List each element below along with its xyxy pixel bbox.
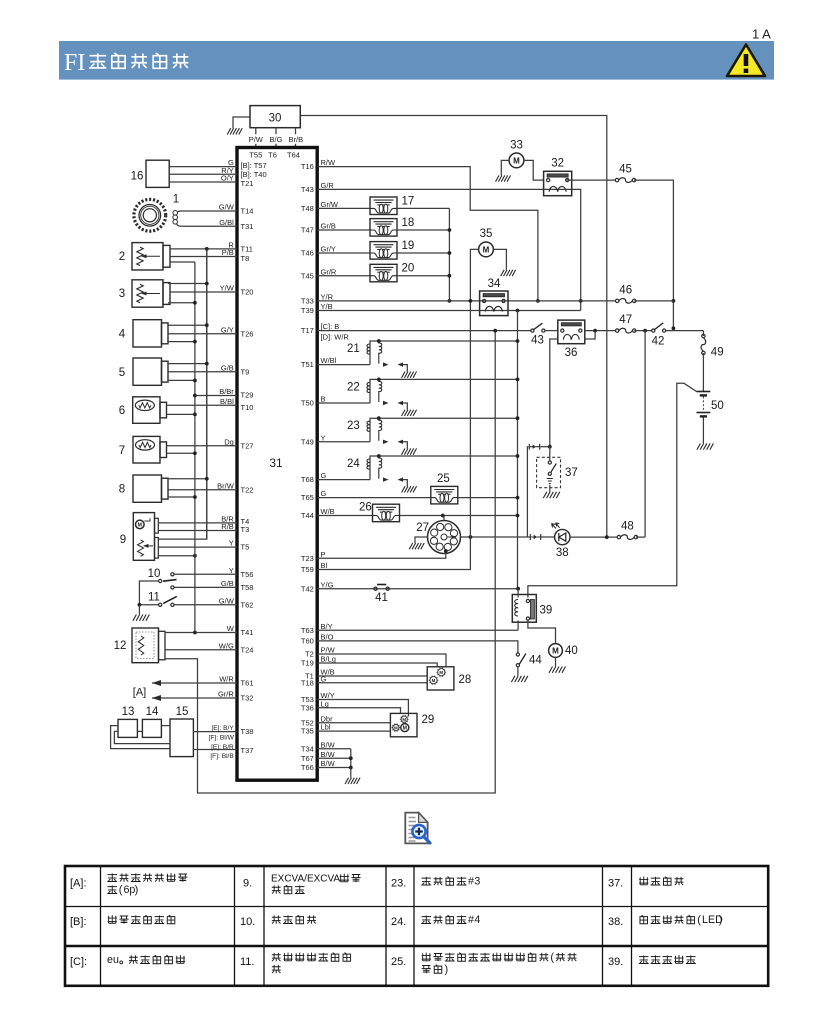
injector supply bus: [517, 311, 519, 589]
wire Y/B T39: [317, 310, 581, 312]
switch 44 sidestand: [516, 653, 519, 656]
relay 32: [544, 171, 572, 195]
switch 41 starter button: [374, 587, 377, 590]
svg-text:M: M: [432, 678, 436, 683]
svg-text:16: 16: [131, 171, 144, 183]
relay 36 starter circuit relay: [545, 330, 558, 332]
wire O/Y to pin None: [169, 181, 237, 183]
component 3 sensor: [132, 280, 163, 307]
ignition coil 19: [317, 252, 370, 254]
svg-text:P/W: P/W: [321, 646, 336, 655]
svg-text:4: 4: [119, 329, 126, 341]
svg-text:3: 3: [119, 288, 125, 300]
svg-text:G: G: [321, 489, 327, 498]
svg-text:Gr/B: Gr/B: [321, 222, 336, 231]
svg-text:EXCVA/EXCVA: EXCVA/EXCVA: [271, 874, 340, 885]
svg-text:[C]:: [C]:: [70, 956, 87, 968]
wire Y to pin T56: [174, 573, 237, 575]
svg-text:T60: T60: [301, 637, 314, 646]
svg-text:T44: T44: [301, 511, 314, 520]
wire B/Bl to pin T10: [167, 404, 238, 406]
svg-text:T18: T18: [301, 678, 314, 687]
svg-text:T10: T10: [241, 403, 254, 412]
wire Br/W to pin T22: [168, 489, 237, 491]
svg-text:[F]: Bl/W: [F]: Bl/W: [209, 734, 235, 741]
wire from box 30 to right bus: [300, 116, 607, 538]
svg-text:38.: 38.: [608, 916, 623, 928]
wire motor 33 to relay 32: [524, 160, 544, 180]
wire fuse 48 up: [636, 536, 645, 538]
svg-text:B/O: B/O: [321, 633, 334, 642]
wire R/Y to pin None: [169, 173, 237, 175]
svg-text:P: P: [321, 550, 326, 559]
wire W/B T1: [317, 675, 427, 677]
relay 39 contact to motor 40: [528, 620, 556, 644]
box 30 connector: [250, 106, 300, 128]
sidestand switch 37: [537, 457, 561, 487]
svg-text:3: 3: [474, 876, 480, 888]
wire R to T11: [170, 248, 237, 250]
svg-text:37.: 37.: [608, 878, 623, 890]
fuel injector 22: [317, 402, 370, 404]
svg-text:10: 10: [148, 568, 161, 580]
svg-text:T46: T46: [301, 249, 314, 258]
svg-text:39.: 39.: [608, 956, 623, 968]
component 9 EXCVA actuator and position sensor: [133, 513, 154, 561]
svg-text:T32: T32: [241, 694, 254, 703]
svg-text:24: 24: [347, 458, 360, 470]
svg-text:T67: T67: [301, 754, 314, 763]
wire G/B to pin T9: [168, 371, 237, 373]
svg-text:9.: 9.: [243, 878, 252, 890]
ignition coil 18: [317, 229, 370, 231]
wires B/W T34 T67 T66: [317, 748, 351, 750]
svg-text:28: 28: [459, 674, 472, 686]
title bar: [59, 41, 774, 80]
svg-text:[B]:: [B]:: [70, 916, 87, 928]
wire P T23 to connector 27: [317, 552, 446, 558]
svg-text:T63: T63: [301, 626, 314, 635]
svg-text:T2: T2: [305, 650, 314, 659]
svg-text:T62: T62: [241, 600, 254, 609]
svg-text:T8: T8: [241, 254, 250, 263]
wire E:B/Y F:Bl/W to T38: [193, 731, 237, 733]
svg-text:[E]: B/R: [E]: B/R: [211, 744, 234, 751]
svg-text:G/B: G/B: [221, 363, 234, 372]
battery ground: [702, 418, 704, 444]
svg-text:T9: T9: [241, 367, 250, 376]
ignition coil 20: [317, 275, 370, 277]
svg-text:M: M: [403, 725, 407, 731]
switch 43 clutch: [531, 329, 534, 332]
svg-text:13: 13: [122, 706, 135, 718]
svg-text:T38: T38: [241, 727, 254, 736]
svg-text:5: 5: [119, 367, 125, 379]
component 8 sensor: [133, 475, 162, 502]
svg-text:33: 33: [510, 140, 523, 152]
svg-text:24.: 24.: [391, 916, 406, 928]
svg-text:Lg: Lg: [321, 699, 329, 708]
component 7 O2 sensor: [133, 436, 160, 463]
warning triangle icon: [727, 45, 765, 77]
relay 36 coil link: [585, 331, 595, 339]
svg-text:2: 2: [119, 251, 125, 263]
svg-text:T24: T24: [241, 645, 254, 654]
svg-text:31: 31: [269, 456, 283, 470]
svg-text:10.: 10.: [240, 916, 255, 928]
svg-text:B/Y: B/Y: [321, 622, 333, 631]
svg-text:Gr/R: Gr/R: [218, 690, 234, 699]
arrow wire W/R to T61: [152, 682, 237, 684]
svg-text:Br/B: Br/B: [289, 135, 304, 144]
ground of switches 10 11: [138, 605, 140, 615]
wire Y/W to pin T20: [170, 291, 237, 293]
component 2 throttle position sensor: [132, 243, 163, 270]
wire fuse 45 down right side: [634, 180, 673, 328]
svg-text:Gr/W: Gr/W: [321, 200, 339, 209]
svg-text:35: 35: [480, 228, 493, 240]
ground of B/W wires: [350, 749, 352, 778]
solenoid 26: [317, 515, 372, 517]
ECU box 31: [237, 148, 317, 781]
component 14: [142, 719, 161, 737]
wire P/B to T8: [170, 256, 237, 258]
component 6 O2 sensor: [133, 397, 160, 424]
servo box 29: [390, 713, 417, 736]
wire G/R T43: [317, 189, 581, 310]
wire B/Y T63: [317, 629, 518, 631]
svg-text:T55: T55: [249, 151, 262, 160]
svg-text:50: 50: [711, 400, 724, 412]
neutral indicator LED 38: [555, 529, 570, 544]
relay 34: [480, 291, 508, 316]
svg-text:23.: 23.: [391, 878, 406, 890]
svg-text:B/Lg: B/Lg: [321, 655, 336, 664]
svg-text:1 A: 1 A: [752, 27, 771, 42]
svg-text:M: M: [483, 245, 490, 254]
ground of motor 33: [501, 160, 509, 175]
svg-text:T5: T5: [241, 543, 250, 552]
svg-text:G/Y: G/Y: [221, 325, 234, 334]
svg-text:T19: T19: [301, 659, 314, 668]
svg-text:#: #: [468, 914, 474, 926]
svg-text:25.: 25.: [391, 956, 406, 968]
svg-text:Lbl: Lbl: [321, 723, 331, 732]
ignition coil 17: [317, 207, 370, 209]
svg-text:[E]: B/Y: [E]: B/Y: [211, 725, 234, 732]
svg-text:T68: T68: [301, 475, 314, 484]
wire Lg T36 to box 29: [317, 708, 400, 714]
svg-text:Y/W: Y/W: [220, 284, 235, 293]
ground of motor 40: [555, 657, 557, 666]
wire relay 36 to fuse 47: [585, 330, 616, 332]
svg-text:FI: FI: [64, 50, 85, 76]
wire connector 27 to LED 38: [461, 536, 531, 538]
svg-text:G/W: G/W: [219, 203, 235, 212]
connector pair at sidestand relay: [529, 444, 539, 450]
svg-text:B/Bl: B/Bl: [220, 397, 234, 406]
svg-text:T66: T66: [301, 763, 314, 772]
svg-text:37: 37: [565, 467, 578, 479]
svg-text:[B]: T40: [B]: T40: [241, 170, 267, 179]
wire Bl T59: [317, 301, 470, 570]
svg-text:(: (: [119, 884, 123, 896]
svg-text:B: B: [321, 395, 326, 404]
wire Y/R T33 to fuse 46: [317, 300, 616, 302]
wire G T18: [317, 682, 427, 684]
ground of switch 37: [549, 485, 551, 492]
svg-text:T65: T65: [301, 493, 314, 502]
svg-text:Gr/R: Gr/R: [321, 267, 337, 276]
svg-text:34: 34: [488, 278, 501, 290]
svg-text:26: 26: [359, 502, 372, 514]
svg-text:T31: T31: [241, 222, 254, 231]
svg-text:T3: T3: [241, 525, 250, 534]
svg-text:T21: T21: [241, 179, 254, 188]
wire Y/G T42 to starter relay: [317, 588, 518, 590]
component 13: [118, 719, 137, 737]
wire G/B to pin T58: [174, 586, 237, 588]
magnifier zoom icon: [405, 813, 430, 844]
legend table: [65, 866, 768, 986]
svg-text:45: 45: [619, 164, 632, 176]
fuel injector 21: [317, 364, 370, 366]
wire B/R to pin T4: [158, 522, 237, 524]
svg-text:Br/W: Br/W: [217, 481, 235, 490]
svg-text:19: 19: [402, 240, 415, 252]
svg-text:[A]: [A]: [133, 687, 146, 699]
svg-text:21: 21: [347, 343, 360, 355]
svg-text:Y/R: Y/R: [321, 293, 334, 302]
wire Dbr T52: [317, 722, 390, 724]
svg-text:12: 12: [114, 640, 127, 652]
svg-text:29: 29: [422, 714, 435, 726]
svg-text:T34: T34: [301, 744, 314, 753]
pickup coil of component 1: [176, 211, 237, 226]
purge valve 25: [317, 497, 431, 499]
component 16 coupler: [146, 160, 169, 187]
svg-text:18: 18: [402, 217, 415, 229]
wire relay 32 to fuse 45: [567, 179, 616, 181]
svg-text:B/Br: B/Br: [219, 387, 234, 396]
svg-text:M: M: [394, 725, 398, 730]
wire G/W to pin T62: [174, 604, 237, 606]
wire 13 to 14: [137, 730, 142, 732]
svg-text:T45: T45: [301, 271, 314, 280]
motor 35 EXCV actuator: [479, 242, 494, 257]
svg-text:T6: T6: [268, 151, 277, 160]
battery positive feed: [528, 383, 697, 597]
svg-text:T17: T17: [301, 326, 314, 335]
svg-text:M: M: [439, 670, 443, 675]
svg-text:T43: T43: [301, 185, 314, 194]
wire R/B to pin T3: [158, 530, 237, 532]
svg-text:T64: T64: [287, 151, 300, 160]
svg-text:M: M: [552, 646, 559, 655]
wire fuse 49 to battery: [702, 353, 704, 392]
svg-text:6: 6: [119, 405, 125, 417]
svg-text:eu: eu: [107, 954, 119, 966]
bus stubs of components 3-8: [168, 283, 207, 285]
svg-text:T49: T49: [301, 437, 314, 446]
svg-text:B/W: B/W: [321, 740, 336, 749]
svg-text:Y: Y: [229, 539, 234, 548]
svg-text:Y/B: Y/B: [321, 302, 333, 311]
svg-text:T14: T14: [241, 207, 254, 216]
svg-text:23: 23: [347, 420, 360, 432]
wire W/G to pin T24: [165, 649, 237, 651]
arrow wire Gr/R to T32: [152, 697, 237, 699]
svg-text:T42: T42: [301, 584, 314, 593]
wire component 12 to bottom rail: [165, 331, 495, 793]
svg-text:17: 17: [402, 196, 415, 208]
svg-text:Gr/Y: Gr/Y: [321, 245, 336, 254]
svg-text:M: M: [138, 522, 142, 528]
svg-text:G: G: [321, 674, 327, 683]
svg-text:T23: T23: [301, 554, 314, 563]
svg-text:T47: T47: [301, 226, 314, 235]
svg-text:Y: Y: [229, 566, 234, 575]
svg-text:7: 7: [119, 445, 125, 457]
wire B/Lg T19 to box 28: [317, 663, 437, 667]
ignition coil bus: [448, 208, 450, 301]
svg-text:Y: Y: [321, 433, 326, 442]
fuel injector 23: [317, 441, 370, 443]
component 5 sensor: [133, 358, 162, 385]
left sensor bus A: [206, 249, 208, 539]
svg-text:G/Bl: G/Bl: [219, 218, 234, 227]
svg-text:Y/G: Y/G: [321, 580, 334, 589]
fuse 49 main fuse: [702, 334, 705, 337]
svg-text:22: 22: [347, 382, 360, 394]
svg-text:32: 32: [551, 158, 564, 170]
wire C:B D:W/R T17 to switch 43: [317, 330, 531, 332]
svg-text:38: 38: [556, 547, 569, 559]
connector pair before LED 38: [530, 534, 540, 540]
wire Y to pin T5: [158, 546, 237, 548]
svg-text:T50: T50: [301, 399, 314, 408]
component 1 crankshaft position sensor gear: [134, 199, 166, 231]
svg-text:T22: T22: [241, 485, 254, 494]
svg-text:39: 39: [540, 605, 553, 617]
wire Lbl T35: [317, 730, 390, 732]
svg-text:20: 20: [402, 263, 415, 275]
svg-text:T16: T16: [301, 162, 314, 171]
svg-text:G: G: [321, 471, 327, 480]
wire E:B/R F:Bl/B to T37: [193, 749, 237, 751]
left sensor bus B: [194, 262, 196, 633]
svg-text:Bl: Bl: [321, 561, 328, 570]
svg-text:T48: T48: [301, 204, 314, 213]
svg-text:47: 47: [619, 314, 632, 326]
svg-text:42: 42: [652, 336, 665, 348]
component 9 feed from bus: [158, 249, 207, 539]
relay 39 coil wires: [517, 589, 519, 598]
svg-text:B/W: B/W: [321, 750, 336, 759]
svg-text:(: (: [550, 952, 554, 964]
svg-text:27: 27: [416, 522, 429, 534]
svg-text:W: W: [227, 624, 235, 633]
svg-text:49: 49: [711, 347, 724, 359]
wire LED 38 to fuse 48: [570, 536, 618, 538]
svg-text:T11: T11: [241, 245, 253, 254]
svg-text:9: 9: [120, 534, 126, 546]
wire G/Y to pin T26: [168, 333, 237, 335]
svg-text:#: #: [468, 876, 474, 888]
ground of switch 44: [517, 667, 519, 676]
component 4 sensor: [133, 320, 162, 347]
wire R/W T16 to sidestand line: [317, 167, 538, 301]
svg-text:): ): [445, 964, 449, 976]
svg-text:T39: T39: [301, 306, 314, 315]
sidestand switch chain down: [548, 445, 552, 449]
svg-text:W/B: W/B: [321, 507, 335, 516]
svg-text:11.: 11.: [240, 956, 254, 968]
svg-text:): ): [135, 884, 139, 896]
svg-text:Dg: Dg: [224, 437, 234, 446]
wire B/O T60 to switch 44: [317, 641, 518, 653]
svg-text:T51: T51: [301, 360, 314, 369]
svg-text:B/G: B/G: [270, 135, 283, 144]
fuse 47: [616, 329, 619, 332]
svg-text:G/R: G/R: [321, 181, 335, 190]
fuel injector 24: [317, 479, 370, 481]
ground at box 30: [233, 117, 250, 128]
svg-text:1: 1: [173, 194, 179, 206]
servo box 28: [427, 667, 454, 690]
wire to fuse 49: [702, 331, 704, 336]
svg-text:T56: T56: [241, 570, 254, 579]
wire W/Y T53 to box 29: [317, 700, 408, 717]
dlc connector 27: [428, 521, 461, 554]
svg-text:W/Bl: W/Bl: [321, 356, 337, 365]
wire 13 to 15 inner: [114, 731, 170, 743]
svg-text:M: M: [513, 156, 520, 165]
svg-text:(: (: [697, 914, 701, 926]
svg-text:T61: T61: [241, 679, 254, 688]
svg-text:R/B: R/B: [221, 522, 234, 531]
component 15: [170, 719, 193, 757]
starter relay 39: [512, 595, 536, 623]
fuse 48 feed bus: [644, 331, 646, 537]
svg-text:14: 14: [146, 706, 159, 718]
motor 33 secondary air pump: [509, 153, 524, 168]
wire B/Br from bus to T29: [195, 395, 237, 397]
svg-text:11: 11: [148, 592, 160, 604]
connector 27 to supply: [443, 516, 445, 521]
wire 13 to 15 outer: [111, 726, 170, 749]
svg-text:G/W: G/W: [219, 596, 235, 605]
svg-text:15: 15: [176, 706, 189, 718]
svg-text:[A]:: [A]:: [70, 878, 87, 890]
component 9 ground stub to bus: [158, 555, 195, 557]
fuse 48: [617, 535, 620, 538]
svg-text:W/G: W/G: [219, 641, 234, 650]
svg-text:B/W: B/W: [321, 759, 336, 768]
wire G to pin None: [169, 166, 237, 168]
svg-text:[B]: T57: [B]: T57: [241, 161, 267, 170]
switch 42 engine stop: [634, 330, 652, 332]
svg-text:G/B: G/B: [221, 579, 234, 588]
svg-text:P/W: P/W: [249, 135, 264, 144]
svg-text:W/R: W/R: [219, 675, 234, 684]
svg-text:T35: T35: [301, 727, 314, 736]
wire Dg to pin T27: [167, 445, 238, 447]
component 12 sensor: [132, 628, 159, 663]
svg-text:T41: T41: [241, 628, 254, 637]
relay 36 coil to sidestand chain: [550, 339, 558, 447]
svg-text:R/W: R/W: [321, 158, 337, 167]
